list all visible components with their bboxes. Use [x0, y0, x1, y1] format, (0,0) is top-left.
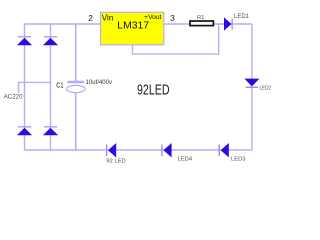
wire: LM317 ADJ feedback loop: [133, 24, 219, 54]
wire: bridge right column: [50, 24, 52, 150]
svg-text:2: 2: [88, 13, 93, 23]
svg-text:92 LED: 92 LED: [106, 159, 125, 165]
diode D4 (bridge, up): [43, 127, 58, 135]
wire: bottom bus through LED3 LED4 92LED: [25, 149, 252, 151]
wire: LED1 to right corner: [232, 23, 252, 25]
svg-text:C1: C1: [56, 80, 63, 89]
resistor R1: [190, 21, 213, 26]
svg-text:LED4: LED4: [178, 156, 193, 162]
capacitor C1: [67, 82, 86, 93]
svg-text:92LED: 92LED: [137, 82, 170, 98]
diode D2 (bridge, up): [43, 37, 58, 45]
wire: R1 to LED1: [214, 23, 224, 25]
LED3 (left): [219, 143, 229, 157]
diode D3 (bridge, up): [17, 127, 32, 135]
wire: capacitor branch upper: [75, 24, 77, 82]
svg-text:10uf/400v: 10uf/400v: [86, 80, 113, 86]
svg-text:R1: R1: [197, 15, 204, 21]
LED1 (right): [224, 17, 232, 30]
wire: bridge left column: [24, 24, 26, 150]
LED4 (left): [162, 143, 172, 157]
svg-text:LM317: LM317: [117, 21, 149, 32]
svg-text:AC220: AC220: [4, 94, 23, 101]
svg-text:LED3: LED3: [231, 157, 246, 163]
wire: LM317 Vout to R1: [164, 23, 190, 25]
op-amp U1 LM317 regulator box: [101, 12, 164, 45]
svg-text:LED1: LED1: [234, 14, 250, 20]
diode 92LED string (left): [107, 143, 117, 157]
svg-text:LED2: LED2: [260, 85, 272, 91]
svg-text:3: 3: [170, 13, 175, 23]
wire: top bus from bridge to LM317 Vin: [25, 23, 101, 25]
wire: AC220 input lead to bridge: [19, 82, 51, 93]
wire: right vertical through LED2: [251, 24, 253, 150]
wire: capacitor branch lower: [75, 93, 77, 151]
LED2 (down): [244, 79, 259, 88]
svg-text:Vin: Vin: [102, 14, 114, 23]
diode D1 (bridge, up): [17, 37, 32, 45]
